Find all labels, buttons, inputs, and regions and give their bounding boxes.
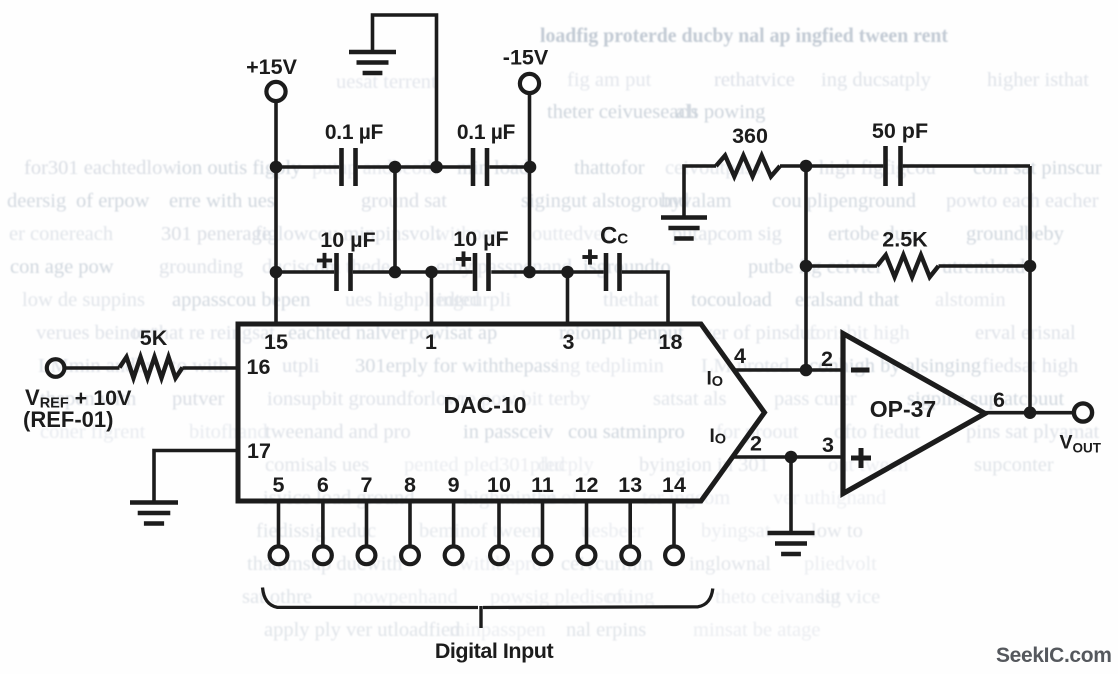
svg-text:utpli: utpli bbox=[282, 355, 320, 377]
svg-text:13: 13 bbox=[618, 473, 642, 497]
svg-text:cou satminpro: cou satminpro bbox=[568, 421, 685, 443]
svg-text:12: 12 bbox=[575, 473, 599, 497]
wire 5K to pin16 bbox=[183, 366, 239, 370]
svg-text:3: 3 bbox=[563, 330, 575, 354]
svg-text:SeekIC.com: SeekIC.com bbox=[996, 644, 1112, 667]
svg-text:2: 2 bbox=[750, 432, 762, 456]
svg-text:isgroundto: isgroundto bbox=[583, 256, 671, 278]
svg-text:supconter: supconter bbox=[974, 454, 1054, 476]
svg-text:sat othre: sat othre bbox=[242, 586, 312, 608]
svg-text:ing ducsatply: ing ducsatply bbox=[821, 69, 932, 91]
svg-text:0.1 µF: 0.1 µF bbox=[325, 121, 384, 144]
svg-text:2: 2 bbox=[821, 347, 833, 371]
capacitor C3 10uF bbox=[334, 253, 339, 291]
svg-text:-15V: -15V bbox=[503, 46, 549, 70]
svg-text:tweenand and pro: tweenand and pro bbox=[265, 421, 411, 443]
svg-text:rethatvice: rethatvice bbox=[714, 69, 795, 91]
svg-text:alstomin: alstomin bbox=[935, 289, 1006, 311]
svg-text:Digital Input: Digital Input bbox=[435, 639, 554, 663]
wire bus1 bbox=[276, 165, 339, 169]
svg-text:powto each eacher: powto each eacher bbox=[946, 190, 1099, 212]
node VREF terminal bbox=[47, 359, 65, 377]
svg-text:5: 5 bbox=[273, 473, 285, 497]
wire -15V rail bbox=[528, 93, 532, 272]
svg-text:deersig: deersig bbox=[7, 190, 66, 212]
svg-text:7: 7 bbox=[361, 473, 373, 497]
svg-text:2.5K: 2.5K bbox=[882, 228, 928, 252]
svg-text:cou plipenground: cou plipenground bbox=[772, 190, 916, 212]
svg-text:erre with ues: erre with ues bbox=[169, 190, 275, 212]
wire VREF to 5K bbox=[64, 366, 119, 370]
svg-text:sig vice: sig vice bbox=[817, 586, 880, 608]
svg-text:er conereach: er conereach bbox=[9, 223, 113, 245]
svg-text:grounding: grounding bbox=[159, 256, 243, 278]
wire feedback right drop x1030 bbox=[1028, 166, 1032, 413]
svg-text:ground sat: ground sat bbox=[361, 190, 447, 212]
wire 360 to node bbox=[780, 164, 806, 168]
svg-text:4: 4 bbox=[734, 344, 746, 368]
svg-text:putver: putver bbox=[172, 388, 225, 410]
svg-text:6: 6 bbox=[317, 473, 329, 497]
svg-text:10: 10 bbox=[487, 473, 511, 497]
wire +15V rail bbox=[274, 102, 278, 325]
svg-text:fig am put: fig am put bbox=[567, 69, 652, 91]
svg-text:15: 15 bbox=[264, 330, 288, 354]
resistor R 360 bbox=[716, 156, 780, 177]
wire 50pF row bbox=[806, 164, 883, 168]
svg-text:10 µF: 10 µF bbox=[320, 228, 375, 252]
wire 2.5K row bbox=[806, 264, 877, 268]
svg-text:minsat be atage: minsat be atage bbox=[693, 619, 821, 641]
svg-text:apply ply ver utloadfied: apply ply ver utloadfied bbox=[264, 619, 460, 641]
resistor R 2.5K bbox=[877, 255, 939, 277]
wire link x395 bbox=[393, 167, 397, 272]
capacitor C5 Cc bbox=[604, 253, 609, 291]
svg-text:of ing: of ing bbox=[606, 586, 654, 608]
resistor R 5K bbox=[120, 357, 183, 378]
svg-text:inglownal: inglownal bbox=[689, 553, 771, 575]
node -15V terminal bbox=[520, 74, 539, 93]
svg-text:low to: low to bbox=[811, 520, 863, 542]
op-amp U2 OP-37 bbox=[843, 334, 985, 494]
digital input terminals bbox=[270, 546, 288, 564]
svg-text:conhigh by alsinging: conhigh by alsinging bbox=[809, 355, 981, 377]
svg-text:loadfig proterde ducby nal ap: loadfig proterde ducby nal ap ingfied tw… bbox=[540, 23, 948, 47]
svg-text:com sat pinscur: com sat pinscur bbox=[973, 157, 1102, 179]
junction dots bus2 bbox=[270, 266, 283, 279]
wire pin3 drop bbox=[566, 272, 570, 324]
wire pin1 drop bbox=[430, 272, 434, 324]
capacitor C4 10uF bbox=[473, 253, 478, 291]
wire 360 left + ground drop bbox=[684, 166, 716, 216]
svg-text:in passceiv: in passceiv bbox=[463, 421, 554, 443]
junction dots bus1 bbox=[270, 161, 283, 174]
wire bus2 bbox=[276, 270, 334, 274]
svg-text:ingcurpli: ingcurpli bbox=[437, 289, 511, 311]
svg-text:DAC-10: DAC-10 bbox=[443, 392, 526, 418]
svg-text:(REF-01): (REF-01) bbox=[23, 407, 113, 432]
svg-text:byvalam: byvalam bbox=[661, 190, 732, 212]
node +15V terminal bbox=[266, 82, 285, 101]
svg-text:ionsupbit groundforlow: ionsupbit groundforlow bbox=[267, 388, 461, 410]
svg-text:higher isthat: higher isthat bbox=[987, 69, 1089, 91]
svg-text:powpenhand: powpenhand bbox=[353, 586, 458, 608]
ground under 360 bbox=[661, 215, 707, 220]
svg-text:als powing: als powing bbox=[676, 101, 765, 123]
ground pin17 bbox=[130, 500, 178, 505]
svg-text:8: 8 bbox=[404, 473, 416, 497]
svg-text:satsat als: satsat als bbox=[653, 388, 726, 410]
svg-text:con age pow: con age pow bbox=[10, 256, 114, 278]
ground op-amp + bbox=[768, 531, 815, 536]
svg-text:ofto fiedut: ofto fiedut bbox=[834, 421, 920, 443]
svg-text:erval erisnal: erval erisnal bbox=[975, 322, 1076, 344]
svg-text:nal erpins: nal erpins bbox=[566, 619, 646, 641]
svg-text:0.1 µF: 0.1 µF bbox=[457, 121, 516, 144]
svg-text:isvice load ground: isvice load ground bbox=[263, 487, 414, 509]
wire top ground link bbox=[373, 15, 437, 167]
capacitor 50pF bbox=[883, 146, 888, 186]
svg-text:1: 1 bbox=[425, 330, 437, 354]
svg-text:thethat: thethat bbox=[603, 289, 659, 311]
minus input symbol bbox=[851, 368, 870, 373]
svg-text:3: 3 bbox=[822, 433, 834, 457]
svg-text:9: 9 bbox=[448, 473, 460, 497]
svg-text:14: 14 bbox=[662, 473, 686, 497]
svg-text:18: 18 bbox=[659, 330, 683, 354]
svg-text:pliedvolt: pliedvolt bbox=[804, 553, 877, 575]
svg-text:groundbeby: groundbeby bbox=[966, 223, 1065, 245]
wire Io top (pin4) bbox=[733, 368, 843, 372]
brace digital input bbox=[263, 588, 713, 608]
svg-text:16: 16 bbox=[247, 355, 271, 379]
svg-text:6: 6 bbox=[993, 388, 1005, 412]
svg-text:17: 17 bbox=[247, 439, 271, 463]
svg-text:for301 eachtedlow: for301 eachtedlow bbox=[24, 157, 177, 179]
svg-text:301erply for withthepass: 301erply for withthepass bbox=[355, 355, 559, 377]
wires digital input pins bbox=[277, 501, 281, 545]
svg-text:50 pF: 50 pF bbox=[872, 119, 928, 143]
svg-text:tocouload: tocouload bbox=[691, 289, 772, 311]
wire output bbox=[985, 411, 1074, 415]
svg-text:of erpow: of erpow bbox=[76, 190, 150, 212]
plus input symbol bbox=[851, 456, 871, 461]
svg-text:low de suppins: low de suppins bbox=[22, 289, 145, 311]
svg-text:11: 11 bbox=[531, 473, 554, 497]
svg-text:thattofor: thattofor bbox=[574, 157, 645, 179]
capacitor C1 0.1uF bbox=[339, 148, 344, 186]
junction dots feedback bbox=[800, 160, 813, 173]
svg-text:+15V: +15V bbox=[246, 55, 297, 79]
svg-text:eralsand that: eralsand that bbox=[795, 289, 899, 311]
svg-text:uesat terrent: uesat terrent bbox=[336, 71, 437, 93]
ground top bbox=[349, 50, 396, 55]
svg-text:outtedver: outtedver bbox=[532, 223, 610, 245]
node VOUT terminal bbox=[1074, 403, 1092, 421]
svg-text:minpasspen: minpasspen bbox=[449, 619, 546, 641]
svg-text:5K: 5K bbox=[140, 326, 168, 350]
svg-text:fiedissig reduc: fiedissig reduc bbox=[256, 520, 376, 542]
svg-text:ter ingcom: ter ingcom bbox=[642, 487, 730, 509]
wire Io bottom (pin2) bbox=[732, 455, 844, 459]
svg-text:uesbeer: uesbeer bbox=[581, 520, 644, 542]
svg-text:byingsat: byingsat bbox=[701, 520, 771, 542]
svg-text:10 µF: 10 µF bbox=[453, 227, 508, 251]
svg-text:appasscou bepen: appasscou bepen bbox=[172, 289, 310, 311]
svg-text:360: 360 bbox=[732, 124, 768, 148]
svg-text:OP-37: OP-37 bbox=[870, 396, 936, 422]
svg-text:ver of pinsduc: ver of pinsduc bbox=[702, 322, 819, 344]
capacitor C2 0.1uF bbox=[471, 148, 476, 186]
svg-text:beminof tween: beminof tween bbox=[419, 520, 541, 542]
svg-text:high figfigcou: high figfigcou bbox=[819, 157, 936, 179]
wire pin17 to ground bbox=[154, 451, 238, 502]
DAC-10 body U1 bbox=[238, 324, 765, 501]
wire feedback left drop x806 bbox=[804, 166, 808, 370]
svg-text:ing tedplimin: ing tedplimin bbox=[554, 355, 664, 377]
wire +input ground drop bbox=[789, 457, 793, 531]
